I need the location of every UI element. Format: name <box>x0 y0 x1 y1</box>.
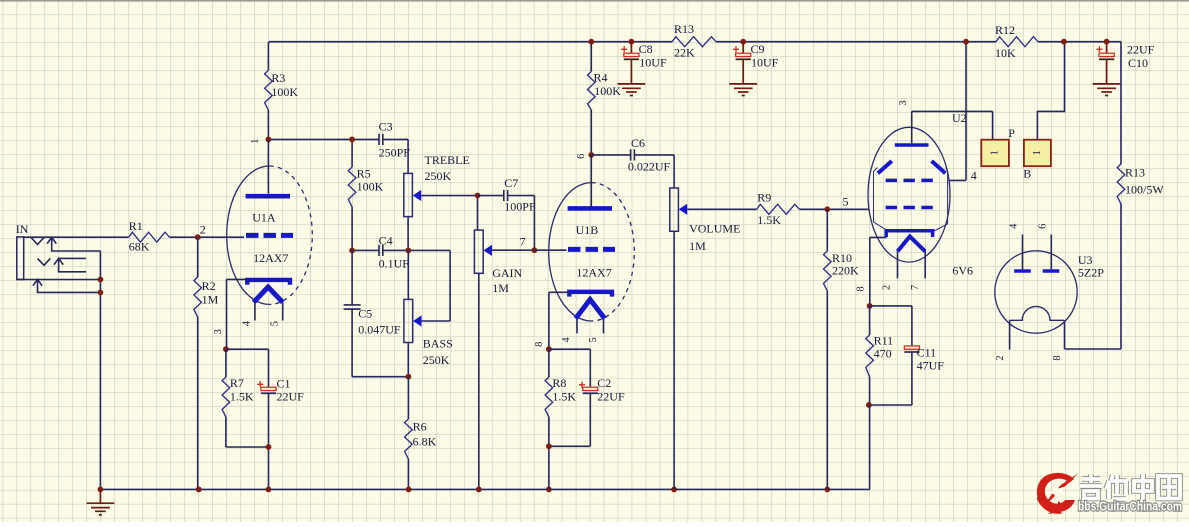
wire U1B cathode node top link <box>549 348 590 350</box>
wire U2 screen to B+ <box>949 42 966 181</box>
node U1A plate node junction dot <box>266 137 272 143</box>
svg-text:100/5W: 100/5W <box>1125 183 1164 197</box>
node C3/R5 node junction dot <box>349 137 355 143</box>
wire jack tip line <box>24 236 129 238</box>
tube U1A envelope <box>227 166 313 304</box>
tube U3 plate pin 6 <box>1043 269 1060 273</box>
svg-text:10UF: 10UF <box>639 55 667 69</box>
capacitor C1 polarized symbol <box>257 381 276 393</box>
wire C10 top lead <box>1106 42 1108 54</box>
tube U3 envelope <box>995 251 1077 333</box>
svg-text:U1A: U1A <box>252 211 276 225</box>
potentiometer VOLUME body <box>670 188 679 231</box>
svg-text:2: 2 <box>200 223 206 237</box>
wire jack sleeve line <box>17 279 101 281</box>
connector B box <box>1024 140 1051 167</box>
wire U1A plate lead <box>267 139 269 193</box>
capacitor C7 plates <box>504 190 508 201</box>
svg-text:R7: R7 <box>230 376 244 390</box>
wire treble wiper wire <box>421 195 477 197</box>
wire U1B heater pin 5 stub <box>603 319 605 333</box>
svg-text:VOLUME: VOLUME <box>689 221 740 235</box>
svg-text:6: 6 <box>576 154 587 159</box>
svg-text:12AX7: 12AX7 <box>576 265 611 279</box>
wire C2 leads <box>549 349 590 489</box>
svg-text:1M: 1M <box>689 239 706 253</box>
wire U3 pin 2 stub <box>1009 320 1011 349</box>
resistor R13 100/5W zigzag <box>1117 164 1125 204</box>
capacitor C11 polarized symbol <box>904 346 919 352</box>
svg-text:5: 5 <box>588 337 599 342</box>
svg-text:8: 8 <box>856 286 867 291</box>
capacitor C2 polarized symbol <box>579 382 598 394</box>
potentiometer GAIN body <box>474 230 483 273</box>
svg-text:B: B <box>1023 167 1031 181</box>
tube U2 heater <box>898 237 926 252</box>
svg-text:3: 3 <box>898 100 909 105</box>
node bass/C5/R6 node junction dot <box>406 374 412 380</box>
wire jack ring break contact <box>38 258 51 265</box>
svg-text:2: 2 <box>882 285 893 290</box>
wire B+ top bus <box>269 41 1121 43</box>
wire C5 leads <box>352 250 408 376</box>
resistor R11 zigzag <box>866 335 874 377</box>
svg-text:R9: R9 <box>757 191 771 205</box>
node bus C1 junction dot <box>266 487 272 493</box>
svg-text:22UF: 22UF <box>1127 42 1155 56</box>
svg-text:1M: 1M <box>202 293 219 307</box>
svg-text:22UF: 22UF <box>597 390 625 404</box>
resistor R4 zigzag <box>588 72 596 111</box>
svg-text:8: 8 <box>534 342 545 347</box>
node U2 cathode node junction dot <box>867 303 873 309</box>
tube U2 control grid <box>886 206 934 210</box>
wire jack tip break contact <box>31 237 44 244</box>
wire wire R9 to U2 grid <box>799 208 868 210</box>
wire C9 top lead <box>742 42 744 54</box>
potentiometer TREBLE body <box>404 173 413 216</box>
svg-text:0.047UF: 0.047UF <box>358 322 401 336</box>
node R7/C1 bottom node junction dot <box>266 444 272 450</box>
svg-text:1M: 1M <box>492 281 509 295</box>
wire U1A heater pin 5 stub <box>282 302 284 320</box>
tube U1B grid <box>568 247 615 252</box>
svg-text:C7: C7 <box>504 176 518 190</box>
node jack sleeve node junction dot <box>98 277 104 283</box>
wire U2 plate to P connector <box>912 111 993 143</box>
svg-text:BASS: BASS <box>423 336 453 350</box>
wire U1B plate lead <box>590 155 592 207</box>
wire U2 heater pin 2 stub <box>897 251 899 278</box>
ground C8 ground <box>618 84 646 96</box>
sheet top border <box>0 0 1189 2</box>
svg-text:P: P <box>1008 126 1015 140</box>
svg-text:6V6: 6V6 <box>952 264 973 278</box>
tube U3 plate pin 4 <box>1014 269 1031 273</box>
svg-text:3: 3 <box>213 329 224 334</box>
svg-text:C2: C2 <box>597 376 611 390</box>
capacitor C5 plates <box>344 305 361 309</box>
svg-text:4: 4 <box>561 337 572 343</box>
svg-text:2: 2 <box>995 355 1006 360</box>
resistor R13 22K zigzag <box>672 37 716 47</box>
wire R4 leads <box>590 42 592 155</box>
wire cathode node link <box>870 305 912 307</box>
wire treble bottom lead <box>407 217 409 251</box>
potentiometer BASS wiper <box>413 315 421 326</box>
wire ground bus <box>100 488 869 490</box>
resistor R1 zigzag <box>129 232 170 242</box>
tube U1B cathode <box>569 292 612 297</box>
wire jack ring switch arrow <box>54 258 86 271</box>
svg-text:C11: C11 <box>917 346 937 360</box>
wire R2 leads <box>197 237 199 489</box>
node treble-wiper/gain/C7 node junction dot <box>475 193 481 199</box>
svg-text:10K: 10K <box>995 46 1016 60</box>
potentiometer GAIN wiper <box>484 245 492 256</box>
svg-text:4: 4 <box>971 169 977 183</box>
tube U1A cathode <box>247 280 290 285</box>
svg-text:R2: R2 <box>202 279 216 293</box>
potentiometer BASS body <box>404 299 413 342</box>
svg-text:250K: 250K <box>423 353 450 367</box>
wire C8 bottom lead <box>630 59 632 83</box>
wire C7 line <box>478 196 535 251</box>
svg-text:220K: 220K <box>832 264 859 278</box>
resistor R9 zigzag <box>757 204 800 214</box>
svg-text:1.5K: 1.5K <box>230 390 254 404</box>
resistor R3 zigzag <box>265 70 273 110</box>
tube U1B envelope <box>549 183 635 321</box>
wire wire R1 to U1A grid <box>170 236 245 238</box>
resistor R2 zigzag <box>194 277 202 317</box>
wire U1A heater pin 4 stub <box>254 302 256 320</box>
node U1A cathode node junction dot <box>223 346 229 352</box>
wire ground stem <box>99 489 101 502</box>
node bus C8 tap junction dot <box>629 39 635 45</box>
node bus C9 tap junction dot <box>740 39 746 45</box>
node bus jack junction dot <box>98 487 104 493</box>
wire C8 top lead <box>630 42 632 54</box>
tube U1B heater <box>576 300 605 319</box>
wire bass top lead <box>407 250 409 299</box>
wire bus to R11 riser <box>869 405 871 489</box>
svg-text:4: 4 <box>241 320 252 326</box>
wire U3 pin 6 lead <box>1050 235 1052 270</box>
svg-text:R6: R6 <box>413 420 427 434</box>
svg-text:R8: R8 <box>552 376 566 390</box>
tube U1B plate <box>568 206 612 211</box>
tube U2 screen grid <box>886 179 934 183</box>
svg-text:1.5K: 1.5K <box>552 390 576 404</box>
svg-text:R12: R12 <box>995 23 1015 37</box>
wire jack ground riser <box>99 251 101 489</box>
svg-text:C9: C9 <box>751 42 765 56</box>
svg-text:100PF: 100PF <box>504 199 536 213</box>
node jack switch node junction dot <box>98 290 104 296</box>
ground C10 ground <box>1093 84 1121 96</box>
tube U2 envelope <box>868 127 950 262</box>
wire volume bottom lead <box>673 231 675 489</box>
capacitor C4 plates <box>379 245 383 256</box>
capacitor C6 plates <box>631 149 635 160</box>
svg-text:C3: C3 <box>379 120 393 134</box>
wire gain wiper wire <box>491 249 535 251</box>
wire R13 branch to U3 pin 8 <box>1065 42 1122 349</box>
svg-text:22K: 22K <box>674 46 695 60</box>
node R5/C4/C5 node junction dot <box>349 248 355 254</box>
svg-text:0.022UF: 0.022UF <box>628 160 671 174</box>
potentiometer TREBLE wiper <box>413 190 421 201</box>
svg-text:10UF: 10UF <box>751 55 779 69</box>
svg-text:R1: R1 <box>129 219 143 233</box>
node bus R8 junction dot <box>546 487 552 493</box>
wire jack sleeve switch arrow <box>33 280 101 293</box>
wire pin1 node to C3 to treble pot <box>268 139 408 173</box>
resistor R10 zigzag <box>824 251 832 291</box>
wire U3 pin 4 lead <box>1022 235 1024 270</box>
svg-text:5: 5 <box>270 321 281 326</box>
svg-text:7: 7 <box>910 285 921 290</box>
wire C9 bottom lead <box>742 59 744 83</box>
wire R6 leads <box>407 377 409 490</box>
wire C1 leads <box>268 349 270 489</box>
svg-text:5Z2P: 5Z2P <box>1078 266 1104 280</box>
ground main ground <box>87 503 115 515</box>
wire R3 leads <box>267 42 269 140</box>
wire pin6 to C6 to volume <box>591 155 674 188</box>
svg-text:7: 7 <box>520 234 526 248</box>
resistor R6 zigzag <box>405 419 413 459</box>
svg-text:U2: U2 <box>952 111 967 125</box>
resistor R12 zigzag <box>996 37 1038 47</box>
wire C10 bottom lead <box>1106 59 1108 83</box>
svg-text:R5: R5 <box>357 167 371 181</box>
ground C9 ground <box>729 84 757 96</box>
tube U2 beam plate left <box>878 161 892 173</box>
svg-text:6.8K: 6.8K <box>413 434 437 448</box>
node U1B cathode node junction dot <box>546 346 552 352</box>
svg-text:R3: R3 <box>271 71 285 85</box>
svg-text:C6: C6 <box>631 136 645 150</box>
svg-text:0.1UF: 0.1UF <box>379 256 410 270</box>
watermark logo <box>1037 473 1079 514</box>
tube U1A heater <box>254 287 283 302</box>
node bus B tap junction dot <box>1061 39 1067 45</box>
svg-text:1.5K: 1.5K <box>757 213 781 227</box>
wire B connector to B+ <box>1037 42 1064 140</box>
svg-text:TREBLE: TREBLE <box>425 153 470 167</box>
capacitor C3 plates <box>379 134 383 145</box>
wire U2 heater pin 7 stub <box>924 251 926 278</box>
svg-text:C5: C5 <box>358 307 372 321</box>
watermark chinese characters <box>1080 474 1180 500</box>
svg-text:1: 1 <box>1032 150 1043 155</box>
connector P box <box>981 140 1009 167</box>
wire bass bottom lead <box>407 343 409 377</box>
svg-text:250K: 250K <box>425 169 452 183</box>
wire R8 leads <box>549 349 590 446</box>
svg-text:68K: 68K <box>129 240 150 254</box>
svg-text:6: 6 <box>1038 224 1049 229</box>
node U1B grid node junction dot <box>532 247 538 253</box>
node R8/C2 bottom node junction dot <box>546 443 552 449</box>
tube U3 filament <box>1010 306 1065 320</box>
node bus R2 junction dot <box>196 487 202 493</box>
svg-text:5: 5 <box>843 195 849 209</box>
wire C4 line to bass wiper riser <box>352 250 450 321</box>
capacitor C9 polarized symbol <box>733 46 751 59</box>
svg-text:R4: R4 <box>594 71 608 85</box>
node bus gain junction dot <box>476 487 482 493</box>
connector IN jack body <box>17 237 24 280</box>
svg-text:R13: R13 <box>1125 166 1145 180</box>
node treble/C4/bass node junction dot <box>405 248 411 254</box>
capacitor C8 polarized symbol <box>621 46 639 59</box>
capacitor C10 polarized symbol <box>1096 46 1114 59</box>
wire R5 leads <box>351 139 353 250</box>
tube U1A plate <box>246 194 290 199</box>
node bus volume junction dot <box>671 487 677 493</box>
svg-text:C10: C10 <box>1128 56 1148 70</box>
wire U2 cathode lead <box>870 237 887 306</box>
node bus screen tap junction dot <box>963 39 969 45</box>
svg-text:R11: R11 <box>874 333 894 347</box>
tube U2 plate <box>895 143 929 147</box>
node U2 grid node junction dot <box>824 206 830 212</box>
node U1A grid node junction dot <box>195 234 201 240</box>
svg-text:47UF: 47UF <box>917 359 945 373</box>
wire gain bottom lead <box>478 273 480 489</box>
svg-text:250PF: 250PF <box>379 146 411 160</box>
svg-text:C4: C4 <box>379 233 393 247</box>
tube U1A grid <box>246 233 293 238</box>
wire C11 leads <box>869 306 912 405</box>
tube U2 cathode <box>886 231 932 237</box>
svg-text:IN: IN <box>16 222 29 236</box>
svg-text:1: 1 <box>250 139 261 144</box>
wire bass wiper wire <box>422 320 451 322</box>
wire U1B heater pin 4 stub <box>576 319 578 333</box>
svg-text:470: 470 <box>874 347 892 361</box>
svg-text:R13: R13 <box>674 22 694 36</box>
node U1B plate node junction dot <box>588 152 594 158</box>
wire U1B cathode lead <box>549 292 569 349</box>
wire volume wiper wire <box>687 208 757 210</box>
svg-text:22UF: 22UF <box>277 390 305 404</box>
svg-text:100K: 100K <box>271 85 298 99</box>
svg-text:bbs.GuitarChina.com: bbs.GuitarChina.com <box>1078 499 1182 514</box>
potentiometer VOLUME wiper <box>679 204 687 215</box>
svg-text:C1: C1 <box>277 376 291 390</box>
tube U2 beam plate side links <box>874 168 948 232</box>
wire jack ring stub <box>59 257 86 259</box>
wire R10 leads <box>826 209 828 489</box>
svg-text:100K: 100K <box>594 84 621 98</box>
node R11/C11 bottom node junction dot <box>866 402 872 408</box>
svg-text:1: 1 <box>990 150 1001 155</box>
svg-text:4: 4 <box>1009 223 1020 229</box>
node bus C10 tap junction dot <box>1104 39 1110 45</box>
resistor R5 zigzag <box>348 167 356 207</box>
wire R7 leads <box>226 349 269 447</box>
svg-text:100K: 100K <box>357 180 384 194</box>
svg-text:U1B: U1B <box>576 223 599 237</box>
wire U1A cathode lead <box>227 279 248 349</box>
svg-text:GAIN: GAIN <box>492 266 522 280</box>
resistor R7 zigzag <box>222 377 230 417</box>
wire R11 leads <box>869 306 871 405</box>
svg-text:C8: C8 <box>639 42 653 56</box>
wire gain top lead <box>477 196 479 231</box>
wire jack tip switch arrow <box>47 237 100 251</box>
node bus R4 tap junction dot <box>588 39 594 45</box>
svg-text:8: 8 <box>1052 355 1063 360</box>
wire cathode node top link <box>227 348 269 350</box>
resistor R8 zigzag <box>545 377 553 417</box>
tube U2 beam plate right <box>932 161 946 173</box>
svg-text:12AX7: 12AX7 <box>253 251 288 265</box>
node bus R6 junction dot <box>406 487 412 493</box>
wire U1B grid wire <box>534 249 566 251</box>
node bus R10 junction dot <box>824 487 830 493</box>
